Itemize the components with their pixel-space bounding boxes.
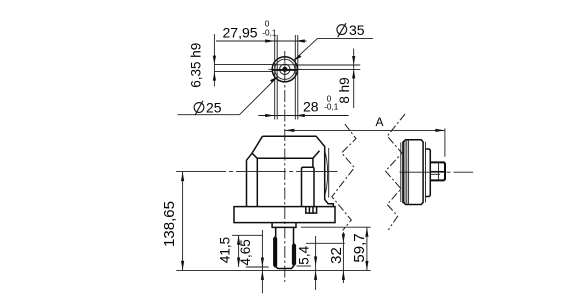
svg-text:28: 28: [303, 98, 319, 114]
svg-text:41,5: 41,5: [218, 237, 233, 263]
svg-text:27,95: 27,95: [223, 24, 258, 40]
svg-text:0: 0: [265, 20, 270, 29]
svg-text:6,35 h9: 6,35 h9: [189, 43, 204, 88]
svg-text:8 h9: 8 h9: [337, 77, 352, 103]
svg-text:-0,1: -0,1: [262, 29, 277, 38]
svg-text:138,65: 138,65: [161, 201, 178, 247]
svg-text:25: 25: [206, 99, 222, 115]
svg-text:5,4: 5,4: [296, 245, 311, 264]
svg-text:35: 35: [349, 22, 365, 38]
svg-text:4,65: 4,65: [238, 239, 253, 265]
svg-text:A: A: [376, 115, 384, 129]
svg-text:59,7: 59,7: [351, 233, 368, 262]
svg-text:32: 32: [328, 247, 345, 264]
